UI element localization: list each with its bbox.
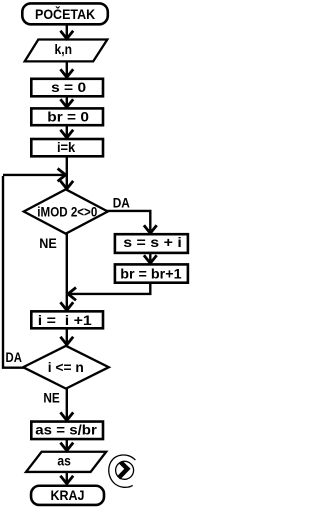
arrowhead into s=0 — [60, 69, 73, 77]
process box as = s/br — [31, 421, 103, 439]
arrowhead loop return pointing right — [58, 169, 66, 182]
arrowhead into s=s+i — [144, 225, 157, 233]
terminator POCETAK — [22, 3, 108, 24]
wire s=0 to br=0 — [66, 96, 68, 105]
arrowhead into decision 1 — [60, 181, 73, 189]
wire s=s+i to br=br+1 — [149, 254, 151, 261]
wire terminator to k,n — [66, 25, 68, 38]
svg-text:NE: NE — [43, 390, 59, 406]
wire i=k to decision 1 — [66, 156, 68, 188]
svg-text:NE: NE — [39, 235, 57, 251]
svg-text:k,n: k,n — [55, 41, 73, 57]
arrowhead into KRAJ — [60, 476, 73, 484]
arrowhead into as=s/br — [60, 412, 73, 420]
wire br=0 to i=k — [66, 125, 68, 136]
svg-text:i=k: i=k — [57, 139, 75, 155]
svg-text:br = 0: br = 0 — [47, 109, 89, 125]
io parallelogram as — [26, 452, 106, 472]
arrowhead pointing left into main line — [68, 288, 76, 301]
sound icon inner circle — [116, 461, 134, 479]
wire k,n to s=0 — [66, 61, 68, 75]
arrowhead into br=0 — [60, 99, 73, 107]
svg-text:POČETAK: POČETAK — [35, 5, 95, 22]
process box s = 0 — [31, 79, 103, 97]
wire i=i+1 to decision 2 — [66, 328, 68, 343]
wire decision1 NE down to i=i+1 — [66, 234, 68, 309]
svg-text:s = s + i: s = s + i — [123, 234, 182, 250]
svg-text:DA: DA — [113, 194, 130, 210]
arrowhead into i=i+1 — [60, 302, 73, 310]
decision diamond iMOD2<>0 — [24, 189, 108, 233]
svg-text:DA: DA — [6, 349, 22, 365]
process box i = i +1 — [31, 311, 103, 328]
arrowhead into k,n — [60, 31, 73, 39]
loop return wire horizontal into junction — [3, 174, 65, 176]
svg-text:i = i +1: i = i +1 — [38, 312, 92, 328]
loop wire decision2 DA left and up — [3, 176, 25, 368]
process box br = br+1 — [115, 264, 188, 282]
wire DA branch right and down — [107, 211, 151, 231]
io parallelogram k,n — [25, 40, 108, 62]
svg-text:i <= n: i <= n — [48, 359, 84, 375]
arrowhead into i=k — [60, 130, 73, 138]
wire decision2 NE down to as=s/br — [66, 389, 68, 419]
sound icon chevron glyph — [119, 462, 128, 478]
svg-text:br = br+1: br = br+1 — [120, 266, 182, 282]
process box i=k — [31, 139, 103, 156]
decision diamond i<=n — [23, 346, 109, 389]
svg-text:s = 0: s = 0 — [51, 79, 86, 95]
arrowhead into br=br+1 — [144, 255, 157, 263]
process box br = 0 — [31, 108, 103, 125]
svg-text:as = s/br: as = s/br — [35, 421, 97, 437]
process box s = s + i — [115, 234, 188, 253]
arrowhead into decision 2 — [60, 337, 73, 345]
svg-text:KRAJ: KRAJ — [51, 487, 85, 503]
arrowhead into io as — [60, 443, 73, 451]
wire br=br+1 down and left to main line — [71, 283, 151, 294]
terminator KRAJ — [31, 486, 104, 505]
sound icon outer swoosh arc — [109, 455, 136, 487]
svg-text:iMOD 2<>0: iMOD 2<>0 — [37, 203, 97, 219]
svg-text:as: as — [57, 453, 71, 469]
wire as=s/br to io as — [66, 439, 68, 449]
wire io as to KRAJ — [66, 472, 68, 482]
